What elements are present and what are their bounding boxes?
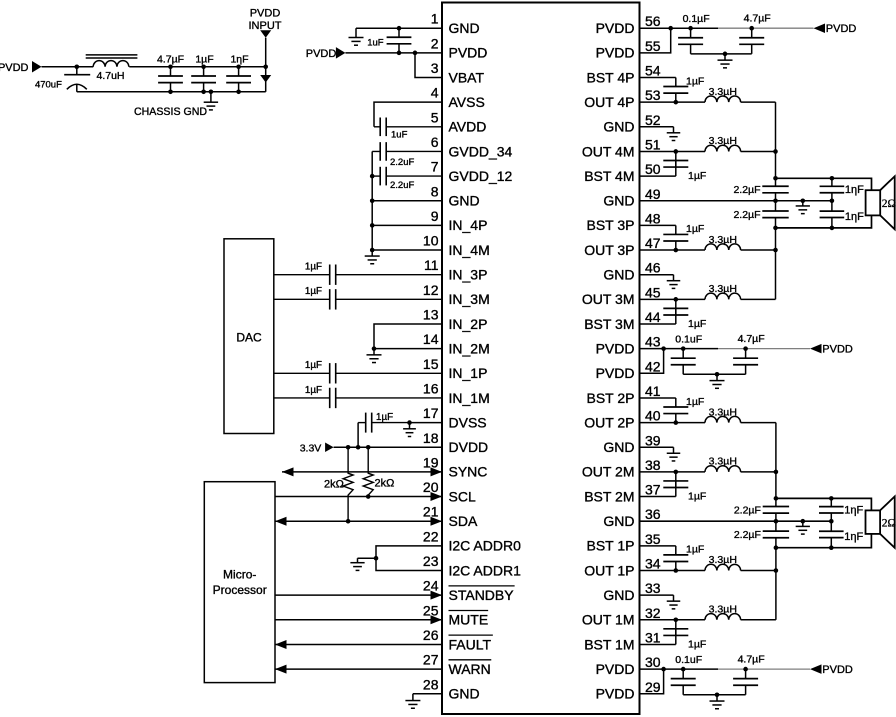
svg-text:1µF: 1µF xyxy=(688,490,706,502)
capacitor 1uF bootstrap pin44 xyxy=(640,299,707,329)
capacitor 1nF top SPK1 xyxy=(820,178,865,200)
svg-text:29: 29 xyxy=(645,679,661,695)
svg-text:PVDD: PVDD xyxy=(306,48,337,60)
pin 33 GND xyxy=(603,580,660,603)
pin 26 FAULT xyxy=(423,627,493,652)
wire bottom return rail xyxy=(77,90,266,95)
capacitor 0.1uF bottom xyxy=(671,654,702,695)
wire pin56 PVDD rail top xyxy=(640,26,814,31)
pin 50 BST 4M xyxy=(584,161,661,184)
svg-text:3.3µH: 3.3µH xyxy=(709,456,737,468)
svg-text:11: 11 xyxy=(424,257,439,273)
svg-text:3.3µH: 3.3µH xyxy=(709,283,737,295)
wire pin29 PVDD join xyxy=(640,669,664,694)
svg-text:1ηF: 1ηF xyxy=(844,504,863,516)
svg-text:PVDD: PVDD xyxy=(596,686,635,702)
inductor L1 4.7uH xyxy=(86,55,138,82)
wire pin19 SYNC bidirectional xyxy=(282,467,442,476)
svg-text:17: 17 xyxy=(423,405,439,421)
svg-text:23: 23 xyxy=(423,553,439,569)
svg-text:36: 36 xyxy=(645,506,661,522)
svg-text:PVDD: PVDD xyxy=(822,664,853,676)
svg-text:2.2µF: 2.2µF xyxy=(733,184,760,196)
svg-text:PVDD: PVDD xyxy=(822,343,853,355)
svg-text:48: 48 xyxy=(645,210,661,226)
svg-text:OUT 2M: OUT 2M xyxy=(582,464,635,480)
svg-text:GVDD_12: GVDD_12 xyxy=(449,168,513,184)
wire cap return mid xyxy=(683,372,745,377)
pin 54 BST 4P xyxy=(587,63,661,86)
ground pin1 xyxy=(349,28,364,45)
IC U1 56-pin audio amplifier xyxy=(442,3,640,715)
svg-text:1µF: 1µF xyxy=(688,170,706,182)
wire speaker top SPK2 xyxy=(776,496,872,510)
pin 1 GND xyxy=(431,11,480,36)
svg-text:1: 1 xyxy=(431,11,439,27)
capacitor 1uF input pin15 xyxy=(274,360,442,383)
pin 51 OUT 4M xyxy=(582,136,661,159)
svg-text:2.2µF: 2.2µF xyxy=(733,209,760,221)
pin 40 OUT 2P xyxy=(584,408,661,431)
svg-text:4.7µF: 4.7µF xyxy=(738,653,765,665)
svg-text:GND: GND xyxy=(449,20,480,36)
svg-text:GND: GND xyxy=(603,439,634,455)
svg-text:1µF: 1µF xyxy=(305,286,322,297)
pin 6 GVDD_34 xyxy=(431,134,513,159)
node PVDD supply terminal xyxy=(0,61,42,74)
pin 9 IN_4P xyxy=(431,208,488,233)
capacitor C1 470uF electrolytic xyxy=(35,67,90,92)
pin 11 IN_3P xyxy=(424,257,487,282)
block DAC xyxy=(224,239,274,434)
svg-text:3.3µH: 3.3µH xyxy=(709,86,737,98)
svg-text:1µF: 1µF xyxy=(305,262,322,273)
svg-text:2kΩ: 2kΩ xyxy=(324,479,344,491)
pin 7 GVDD_12 xyxy=(431,159,513,184)
pin 29 PVDD xyxy=(596,679,661,702)
svg-text:35: 35 xyxy=(645,531,661,547)
wire pin21 SDA xyxy=(275,517,442,526)
svg-text:1ηF: 1ηF xyxy=(845,184,864,196)
svg-text:28: 28 xyxy=(423,676,439,692)
capacitor C3 1uF xyxy=(191,53,216,92)
wire output bus SPK1 xyxy=(773,102,778,299)
svg-text:FAULT: FAULT xyxy=(449,636,492,652)
pin 16 IN_1M xyxy=(423,380,490,405)
svg-text:GVDD_34: GVDD_34 xyxy=(449,143,513,159)
svg-text:56: 56 xyxy=(645,13,661,29)
svg-text:IN_2M: IN_2M xyxy=(449,340,490,356)
wire pin30 PVDD rail bottom xyxy=(640,667,811,672)
svg-text:PVDD: PVDD xyxy=(596,45,635,61)
svg-text:OUT 4M: OUT 4M xyxy=(582,143,635,159)
svg-text:SYNC: SYNC xyxy=(449,464,488,480)
pin 47 OUT 3P xyxy=(584,235,661,258)
svg-text:1ηF: 1ηF xyxy=(230,53,248,65)
wire pin33 GND stub xyxy=(640,594,674,596)
pin 18 DVDD xyxy=(423,430,488,455)
capacitor C7 2.2uF GVDD_34 xyxy=(372,142,442,168)
node PVDD arrow bottom xyxy=(810,664,853,676)
wire DVSS cap to DVDD xyxy=(357,423,359,448)
wire pin13 IN_2P loop xyxy=(374,324,442,349)
wire pin9 IN_4P xyxy=(372,224,442,226)
svg-text:46: 46 xyxy=(645,260,661,276)
capacitor 1uF bootstrap pin48 xyxy=(640,223,705,250)
svg-text:4: 4 xyxy=(431,85,439,101)
wire pin55 PVDD join xyxy=(640,28,671,53)
ground speaker SPK1 xyxy=(796,201,810,214)
svg-text:IN_3M: IN_3M xyxy=(449,291,490,307)
svg-text:27: 27 xyxy=(423,652,439,668)
svg-text:SCL: SCL xyxy=(449,488,476,504)
pin 27 WARN xyxy=(423,652,491,677)
wire pin17 DVSS xyxy=(407,420,442,425)
svg-text:14: 14 xyxy=(423,331,439,347)
svg-text:DVSS: DVSS xyxy=(449,414,487,430)
pin 39 GND xyxy=(603,432,660,455)
wire GND mid SPK2 xyxy=(640,519,834,524)
pin 32 OUT 1M xyxy=(582,605,661,628)
capacitor 1uF input pin16 xyxy=(274,385,442,408)
svg-text:6: 6 xyxy=(431,134,439,150)
ground pin46 xyxy=(667,275,681,289)
resistor R1 2k pullup SDA xyxy=(324,447,353,521)
svg-text:49: 49 xyxy=(645,186,661,202)
wire pin25 MUTE xyxy=(275,615,442,624)
wire pin38 output with inductor 3.3uH xyxy=(640,456,779,475)
capacitor 0.1µF top xyxy=(678,13,710,54)
svg-text:4.7µF: 4.7µF xyxy=(157,53,184,65)
capacitor C2 4.7uF xyxy=(157,53,184,92)
wire pin10 IN_4M xyxy=(372,249,442,251)
svg-text:STANDBY: STANDBY xyxy=(449,587,515,603)
wire pin8 GND xyxy=(372,200,442,202)
capacitor 2.2uF bottom SPK2 xyxy=(734,529,789,541)
capacitor 1uF input pin11 xyxy=(274,262,442,285)
pin 31 BST 1M xyxy=(584,629,661,652)
svg-text:PVDD: PVDD xyxy=(596,340,635,356)
pin 36 GND xyxy=(603,506,660,529)
wire speaker top SPK1 xyxy=(776,176,872,190)
svg-text:BST 1M: BST 1M xyxy=(584,636,634,652)
svg-text:42: 42 xyxy=(645,358,661,374)
svg-text:2.2uF: 2.2uF xyxy=(390,157,414,168)
pin 20 SCL xyxy=(423,479,476,504)
pin 23 I2C ADDR1 xyxy=(423,553,521,578)
svg-text:GND: GND xyxy=(449,686,480,702)
ground pin33 xyxy=(667,595,681,609)
svg-text:12: 12 xyxy=(423,282,439,298)
wire cap return top xyxy=(691,52,752,57)
pin 30 PVDD xyxy=(596,654,661,677)
node PVDD pin2 terminal xyxy=(306,47,346,60)
svg-text:PVDD: PVDD xyxy=(596,20,635,36)
capacitor 1uF bootstrap pin37 xyxy=(640,472,707,502)
svg-text:52: 52 xyxy=(645,112,661,128)
svg-text:AVSS: AVSS xyxy=(449,94,485,110)
wire pin43 PVDD rail mid xyxy=(640,346,811,351)
svg-text:3.3µH: 3.3µH xyxy=(709,135,737,147)
capacitor 2.2uF top SPK1 xyxy=(733,184,788,196)
ground pin14 xyxy=(367,349,382,363)
node PVDD arrow mid xyxy=(810,343,853,355)
svg-text:VBAT: VBAT xyxy=(449,69,485,85)
pin 22 I2C ADDR0 xyxy=(423,528,521,553)
svg-text:IN_2P: IN_2P xyxy=(449,316,488,332)
pin 42 PVDD xyxy=(596,358,661,381)
svg-text:55: 55 xyxy=(645,38,661,54)
wire inductor to PVDD INPUT node xyxy=(129,65,268,70)
capacitor 1uF bootstrap pin41 xyxy=(640,396,705,423)
svg-text:AVDD: AVDD xyxy=(449,119,487,135)
svg-text:4.7uH: 4.7uH xyxy=(96,70,124,82)
svg-text:18: 18 xyxy=(423,430,439,446)
svg-text:GND: GND xyxy=(603,587,634,603)
wire GND mid SPK1 xyxy=(640,198,835,203)
wire PVDD INPUT vertical drop xyxy=(265,38,267,92)
svg-text:3.3µH: 3.3µH xyxy=(709,554,737,566)
svg-text:DAC: DAC xyxy=(236,331,262,345)
svg-text:DVDD: DVDD xyxy=(449,439,489,455)
svg-text:IN_1M: IN_1M xyxy=(449,390,490,406)
svg-text:1µF: 1µF xyxy=(686,544,704,556)
pin 43 PVDD xyxy=(596,334,661,357)
svg-text:44: 44 xyxy=(645,309,661,325)
svg-text:0.1uF: 0.1uF xyxy=(675,654,702,666)
svg-text:1ηF: 1ηF xyxy=(844,531,863,543)
svg-text:WARN: WARN xyxy=(449,661,491,677)
wire cap return bottom xyxy=(683,692,745,697)
pin 21 SDA xyxy=(423,504,478,529)
svg-text:1µF: 1µF xyxy=(305,385,322,396)
pin 10 IN_4M xyxy=(423,233,490,258)
ground CHASSIS GND xyxy=(134,92,218,118)
svg-text:IN_4M: IN_4M xyxy=(449,242,490,258)
svg-text:9: 9 xyxy=(431,208,439,224)
capacitor C13 1uF DVSS-DVDD xyxy=(358,412,409,433)
capacitor 0.1uF mid xyxy=(671,333,702,374)
svg-text:I2C ADDR1: I2C ADDR1 xyxy=(449,562,522,578)
svg-text:1uF: 1uF xyxy=(391,130,408,141)
svg-text:MUTE: MUTE xyxy=(449,612,489,628)
pin 4 AVSS xyxy=(431,85,485,110)
capacitor C5 1uF pin1-pin2 xyxy=(367,28,411,53)
svg-text:1µF: 1µF xyxy=(376,412,393,423)
svg-text:SDA: SDA xyxy=(449,513,478,529)
capacitor 1uF bootstrap pin54 xyxy=(640,75,705,102)
svg-text:50: 50 xyxy=(645,161,661,177)
svg-text:1µF: 1µF xyxy=(686,75,704,87)
svg-text:OUT 3M: OUT 3M xyxy=(582,291,635,307)
svg-text:31: 31 xyxy=(645,629,661,645)
pin 35 BST 1P xyxy=(587,531,661,554)
ground speaker SPK2 xyxy=(796,521,810,534)
svg-text:2Ω: 2Ω xyxy=(882,517,896,529)
svg-text:2.2uF: 2.2uF xyxy=(390,180,414,191)
block Micro-Processor xyxy=(204,482,275,683)
svg-text:1µF: 1µF xyxy=(686,223,704,235)
ground pin52 xyxy=(667,127,681,141)
pin 13 IN_2P xyxy=(423,307,488,332)
svg-text:26: 26 xyxy=(423,627,439,643)
wire pin24 STANDBY xyxy=(275,591,442,600)
svg-text:3: 3 xyxy=(431,60,439,76)
capacitor C6 1uF AVSS-AVDD xyxy=(374,118,442,141)
wire output bus SPK2 xyxy=(774,423,779,620)
svg-text:IN_1P: IN_1P xyxy=(449,365,488,381)
svg-text:GND: GND xyxy=(449,193,480,209)
ground top xyxy=(718,54,733,68)
svg-text:54: 54 xyxy=(645,63,661,79)
capacitor C8 2.2uF GVDD_12 xyxy=(372,167,442,191)
pin 44 BST 3M xyxy=(584,309,661,332)
svg-text:PVDD: PVDD xyxy=(596,365,635,381)
ground mid xyxy=(710,374,725,388)
pin 19 SYNC xyxy=(423,454,487,479)
svg-text:32: 32 xyxy=(645,605,661,621)
svg-text:7: 7 xyxy=(431,159,439,175)
svg-text:53: 53 xyxy=(645,87,661,103)
svg-text:BST 2P: BST 2P xyxy=(587,390,635,406)
resistor R2 2k pullup SCL xyxy=(363,447,394,496)
node PVDD arrow top xyxy=(814,23,857,35)
svg-text:PVDD: PVDD xyxy=(250,8,281,20)
svg-text:3.3µH: 3.3µH xyxy=(709,406,737,418)
svg-text:PVDD: PVDD xyxy=(826,23,857,35)
wire pin14 IN_2M xyxy=(372,346,442,351)
pin 12 IN_3M xyxy=(423,282,490,307)
wire pin2 PVDD xyxy=(345,51,442,56)
capacitor 1uF bootstrap pin35 xyxy=(640,544,705,571)
svg-text:BST 4P: BST 4P xyxy=(587,69,635,85)
pin 2 PVDD xyxy=(431,35,488,60)
pin 45 OUT 3M xyxy=(582,284,661,307)
wire pin45 output with inductor 3.3uH xyxy=(640,283,776,302)
wire pin52 GND stub xyxy=(640,126,674,128)
wire pin26 FAULT xyxy=(275,640,442,649)
wire pin39 GND stub xyxy=(640,446,674,448)
wire pin51 output with inductor 3.3uH xyxy=(640,135,778,154)
svg-text:4.7µF: 4.7µF xyxy=(744,12,771,24)
wire pin42 PVDD join xyxy=(640,349,664,374)
wire pin20 SCL xyxy=(275,492,442,501)
pin 8 GND xyxy=(431,183,480,208)
svg-text:2.2µF: 2.2µF xyxy=(734,504,761,516)
ground pin28 xyxy=(405,694,420,709)
svg-text:IN_3P: IN_3P xyxy=(449,267,488,283)
capacitor 4.7uF bottom xyxy=(733,653,765,694)
svg-text:45: 45 xyxy=(645,284,661,300)
svg-text:GND: GND xyxy=(603,193,634,209)
svg-text:5: 5 xyxy=(431,109,439,125)
svg-text:13: 13 xyxy=(423,307,439,323)
svg-text:47: 47 xyxy=(645,235,661,251)
svg-text:3.3V: 3.3V xyxy=(300,442,322,454)
speaker SPK2 2 ohm xyxy=(866,497,896,548)
wire pin32 output with inductor 3.3uH xyxy=(640,604,776,623)
svg-text:OUT 1P: OUT 1P xyxy=(584,562,634,578)
pin 56 PVDD xyxy=(596,13,661,36)
svg-text:IN_4P: IN_4P xyxy=(449,217,488,233)
svg-text:16: 16 xyxy=(423,380,439,396)
svg-text:1µF: 1µF xyxy=(195,53,213,65)
speaker SPK1 2 ohm xyxy=(866,176,896,229)
capacitor 4.7uF top xyxy=(739,12,771,53)
svg-text:PVDD: PVDD xyxy=(449,45,488,61)
wire pin53 output with inductor 3.3uH xyxy=(640,86,776,105)
svg-text:PVDD: PVDD xyxy=(0,62,29,74)
svg-text:34: 34 xyxy=(645,556,661,572)
svg-text:1µF: 1µF xyxy=(305,360,322,371)
node PVDD INPUT terminal xyxy=(249,8,282,38)
svg-text:Processor: Processor xyxy=(213,583,267,597)
svg-text:PVDD: PVDD xyxy=(596,661,635,677)
svg-text:39: 39 xyxy=(645,432,661,448)
wire pin40 output with inductor 3.3uH xyxy=(640,406,776,425)
wire pin3 VBAT to pin2 xyxy=(415,53,442,78)
svg-text:43: 43 xyxy=(645,334,661,350)
svg-text:CHASSIS GND: CHASSIS GND xyxy=(134,106,207,118)
ground left bus xyxy=(365,250,380,264)
pin 52 GND xyxy=(603,112,660,135)
svg-text:4.7µF: 4.7µF xyxy=(738,333,765,345)
svg-text:2: 2 xyxy=(431,35,439,51)
svg-text:I2C ADDR0: I2C ADDR0 xyxy=(449,538,522,554)
wire speaker bottom SPK2 xyxy=(776,534,872,550)
node 3.3V terminal xyxy=(300,442,334,454)
pin 38 OUT 2M xyxy=(582,457,661,480)
svg-text:38: 38 xyxy=(645,457,661,473)
svg-text:1uF: 1uF xyxy=(367,38,384,49)
svg-text:1µF: 1µF xyxy=(686,396,704,408)
capacitor 2.2uF bottom SPK1 xyxy=(733,209,788,221)
capacitor 1uF input pin12 xyxy=(274,286,442,309)
svg-text:10: 10 xyxy=(423,233,439,249)
svg-text:BST 4M: BST 4M xyxy=(584,168,634,184)
svg-text:37: 37 xyxy=(645,482,661,498)
svg-text:2kΩ: 2kΩ xyxy=(375,478,395,490)
svg-text:22: 22 xyxy=(423,528,439,544)
svg-text:1ηF: 1ηF xyxy=(845,211,864,223)
pin 5 AVDD xyxy=(431,109,487,134)
svg-text:BST 3P: BST 3P xyxy=(587,217,635,233)
svg-text:OUT 4P: OUT 4P xyxy=(584,94,634,110)
svg-text:40: 40 xyxy=(645,408,661,424)
wire pin28 GND xyxy=(413,693,442,695)
svg-text:51: 51 xyxy=(645,136,661,152)
wire pin1 GND net xyxy=(356,26,442,31)
capacitor 1uF bootstrap pin50 xyxy=(640,151,707,181)
capacitor 4.7uF mid xyxy=(733,333,765,374)
svg-text:1µF: 1µF xyxy=(688,638,706,650)
wire I2C addr ground tap xyxy=(358,557,377,559)
wire pin47 output with inductor 3.3uH xyxy=(640,234,778,253)
svg-text:0.1µF: 0.1µF xyxy=(683,13,710,25)
pin 3 VBAT xyxy=(431,60,485,85)
svg-text:OUT 2P: OUT 2P xyxy=(584,414,634,430)
wire pin34 output with inductor 3.3uH xyxy=(640,554,779,573)
svg-text:33: 33 xyxy=(645,580,661,596)
ground pin39 xyxy=(667,447,681,461)
pin 55 PVDD xyxy=(596,38,661,61)
capacitor C4 1nF xyxy=(226,53,251,92)
svg-text:15: 15 xyxy=(423,356,439,372)
pin 34 OUT 1P xyxy=(584,556,661,579)
pin 15 IN_1P xyxy=(423,356,488,381)
capacitor 1nF bottom SPK2 xyxy=(819,521,864,548)
svg-text:Micro-: Micro- xyxy=(223,568,256,582)
